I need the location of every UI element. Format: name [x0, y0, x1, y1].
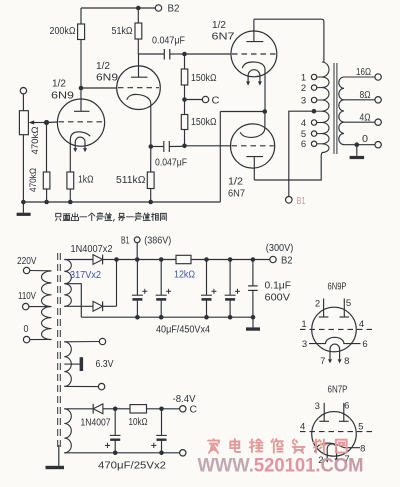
svg-text:1N4007x2: 1N4007x2: [71, 244, 113, 255]
tube V4 1/2 6N7 lower: [231, 112, 275, 181]
svg-text:C: C: [190, 404, 198, 415]
wire plate V4 to transformer bottom: [254, 153, 323, 181]
diode D1 1N4007: [93, 255, 103, 265]
ground transformer core: [58, 445, 60, 466]
ground main: [22, 202, 24, 213]
wire B+ bus left: [117, 259, 177, 261]
svg-text:0.047μF: 0.047μF: [155, 158, 187, 169]
resistor 51k: [137, 8, 139, 23]
svg-text:4: 4: [300, 421, 305, 432]
capacitor 40uF electrolytic 3: [206, 260, 208, 296]
node bias 1: [113, 407, 118, 412]
svg-text:3: 3: [301, 95, 306, 106]
capacitor 0.047uF coupling 1: [138, 53, 164, 55]
ground secondary: [356, 145, 358, 156]
svg-text:B2: B2: [281, 255, 293, 266]
svg-text:600V: 600V: [265, 292, 291, 303]
svg-text:-8.4V: -8.4V: [173, 394, 196, 405]
svg-text:16Ω: 16Ω: [356, 67, 371, 78]
wire pot bottom: [22, 135, 24, 202]
node 511k gnd: [148, 200, 153, 205]
svg-text:6N7P: 6N7P: [328, 384, 348, 395]
terminal 220V: [23, 267, 29, 273]
node C tap: [182, 97, 187, 102]
svg-text:1/2: 1/2: [96, 61, 110, 72]
svg-text:1: 1: [301, 72, 306, 83]
svg-text:8: 8: [344, 356, 349, 367]
resistor 10k bias: [115, 408, 130, 410]
svg-text:7: 7: [320, 356, 325, 367]
node 1k gnd: [68, 200, 73, 205]
terminal C top: [202, 96, 208, 102]
resistor 1k cathode: [67, 172, 74, 189]
svg-text:5: 5: [346, 298, 351, 309]
potentiometer 470k volume: [19, 111, 28, 135]
node wiper: [44, 120, 49, 125]
wire top B2 bus: [81, 7, 155, 9]
svg-text:110V: 110V: [18, 291, 36, 302]
svg-text:0: 0: [362, 134, 368, 145]
svg-text:6N7: 6N7: [212, 32, 236, 43]
resistor 470k grid: [43, 172, 50, 189]
capacitor 470uF 2: [161, 409, 163, 436]
output transformer primary winding: [322, 62, 329, 153]
ground psu: [252, 317, 254, 327]
terminal bias return: [180, 450, 186, 456]
node rectifier out: [114, 257, 119, 262]
svg-text:200kΩ: 200kΩ: [50, 26, 76, 37]
svg-text:150kΩ: 150kΩ: [191, 73, 217, 84]
svg-text:470kΩ: 470kΩ: [30, 127, 41, 155]
svg-text:317Vx2: 317Vx2: [70, 270, 101, 281]
terminal B2 psu: [270, 256, 276, 262]
svg-text:B2: B2: [168, 4, 180, 15]
capacitor 40uF electrolytic 2: [160, 260, 162, 296]
terminal B2 top: [155, 5, 161, 11]
secondary terminals: [375, 74, 381, 80]
svg-text:2: 2: [301, 83, 306, 94]
node secondary 0: [355, 142, 360, 147]
terminal input: [20, 88, 26, 94]
svg-text:B1: B1: [121, 235, 130, 246]
node cathodes V3 V4: [263, 109, 268, 114]
wire to grid of V2: [81, 87, 117, 89]
primary tap terminals 1-6: [311, 74, 316, 79]
svg-text:0: 0: [24, 324, 29, 335]
wire plate V3 to transformer top: [254, 19, 324, 62]
node plate1/grid2: [79, 86, 84, 91]
svg-text:1kΩ: 1kΩ: [78, 175, 94, 186]
node center tap primary: [312, 109, 317, 114]
primary tap stubs: [317, 76, 322, 78]
power transformer bias winding: [64, 409, 71, 453]
svg-text:4: 4: [359, 319, 364, 330]
svg-text:0.1μF: 0.1μF: [265, 280, 292, 291]
svg-text:8Ω: 8Ω: [360, 90, 371, 101]
svg-text:511kΩ: 511kΩ: [116, 175, 146, 186]
wire to grid V3: [185, 53, 232, 55]
capacitor 0.1uF 600V: [252, 260, 254, 286]
wire bias return bus: [64, 452, 179, 454]
svg-text:6: 6: [362, 339, 367, 350]
capacitor 470uF 1: [114, 409, 116, 436]
svg-text:1/2: 1/2: [212, 20, 226, 31]
svg-text:2: 2: [315, 298, 320, 309]
wire HV top to D1: [64, 259, 93, 261]
resistor 150k lower: [184, 100, 186, 115]
svg-text:B1: B1: [297, 196, 306, 207]
capacitor 0.047uF coupling 2: [151, 146, 164, 148]
terminal B1 psu: [134, 237, 140, 243]
terminal 0V: [23, 336, 29, 342]
tube V3 1/2 6N7 upper: [231, 19, 277, 111]
svg-text:WWW.520101.COM: WWW.520101.COM: [198, 456, 364, 477]
watermark red site name: [208, 439, 219, 453]
node cathode V2 / 511k: [149, 144, 154, 149]
node pot gnd: [21, 200, 26, 205]
power transformer mains primary: [41, 271, 51, 340]
wire D2 up to bus: [116, 260, 118, 307]
svg-text:470kΩ: 470kΩ: [28, 168, 38, 192]
diode D2 1N4007: [93, 301, 103, 311]
terminal 110V: [23, 303, 29, 309]
node bias 2: [159, 407, 164, 412]
tube V1 1/2 6N9: [57, 88, 104, 172]
svg-text:4Ω: 4Ω: [360, 112, 371, 123]
svg-text:3: 3: [302, 339, 307, 350]
transformer core: [333, 63, 335, 154]
secondary tap wires: [344, 76, 375, 78]
svg-text:51kΩ: 51kΩ: [112, 26, 133, 37]
wire 200k to node: [80, 40, 82, 89]
wire wiper to grid V1: [47, 121, 58, 124]
wire 51k to cap node: [137, 39, 139, 54]
svg-text:(386V): (386V): [144, 236, 171, 247]
node 470k gnd: [44, 200, 49, 205]
wire B+ bus right: [191, 259, 270, 261]
wire B1 feed: [289, 111, 314, 196]
svg-text:4: 4: [301, 118, 306, 129]
svg-text:1: 1: [301, 319, 306, 330]
svg-text:(300V): (300V): [266, 243, 294, 254]
resistor 511k: [150, 147, 152, 173]
svg-text:C: C: [212, 96, 220, 107]
tube V2 1/2 6N9: [117, 54, 161, 147]
output transformer secondary winding: [339, 77, 344, 145]
svg-text:12kΩ: 12kΩ: [174, 269, 195, 280]
power transformer 6.3V winding: [64, 342, 71, 387]
node junction 51k top: [136, 6, 141, 11]
resistor 200k: [80, 8, 82, 24]
node cap2/grid V4: [182, 144, 187, 149]
wire cathodes to ground drop: [220, 111, 264, 113]
svg-text:40μF/450Vx4: 40μF/450Vx4: [156, 325, 210, 336]
wire HV center tap: [64, 284, 81, 318]
wire HV bottom to D2: [64, 305, 93, 307]
svg-text:220V: 220V: [17, 256, 37, 267]
svg-text:3: 3: [315, 401, 320, 412]
note channel text: [56, 213, 61, 220]
svg-text:6N9: 6N9: [51, 91, 75, 102]
terminal B1 output: [286, 197, 293, 204]
wire ground bus: [23, 201, 220, 203]
terminal 6.3V top: [99, 338, 105, 344]
terminal C bias: [180, 406, 186, 412]
power transformer core dashed: [57, 253, 59, 449]
capacitor 40uF electrolytic 1: [136, 260, 138, 296]
svg-text:6.3V: 6.3V: [96, 359, 114, 370]
svg-text:150kΩ: 150kΩ: [191, 117, 217, 128]
power transformer HV secondary: [64, 260, 71, 307]
svg-text:8: 8: [360, 443, 365, 454]
svg-text:5: 5: [358, 421, 363, 432]
svg-text:1/2: 1/2: [52, 79, 66, 90]
wire psu ground bus: [81, 316, 253, 318]
terminal 6.3V bottom: [98, 383, 104, 389]
svg-text:6N7: 6N7: [228, 189, 245, 200]
svg-text:6N9P: 6N9P: [328, 281, 347, 292]
svg-text:6N9: 6N9: [96, 73, 119, 84]
node cap1/150k: [182, 52, 187, 57]
resistor 12k dropping: [176, 255, 191, 263]
svg-text:6: 6: [301, 139, 306, 150]
svg-text:1N4007: 1N4007: [81, 418, 111, 429]
svg-text:6: 6: [344, 401, 349, 412]
wire wiper down: [46, 123, 48, 173]
svg-text:10kΩ: 10kΩ: [129, 417, 148, 428]
diode D3 1N4007 bias: [92, 404, 94, 414]
wire bias top: [64, 408, 93, 410]
svg-text:1/2: 1/2: [228, 177, 243, 188]
capacitor 40uF electrolytic 4: [229, 260, 231, 296]
resistor 150k upper: [184, 54, 186, 69]
center tap 6.3V ground bar: [64, 363, 79, 365]
svg-text:0.047μF: 0.047μF: [152, 36, 185, 47]
svg-text:470μF/25Vx2: 470μF/25Vx2: [98, 460, 166, 471]
